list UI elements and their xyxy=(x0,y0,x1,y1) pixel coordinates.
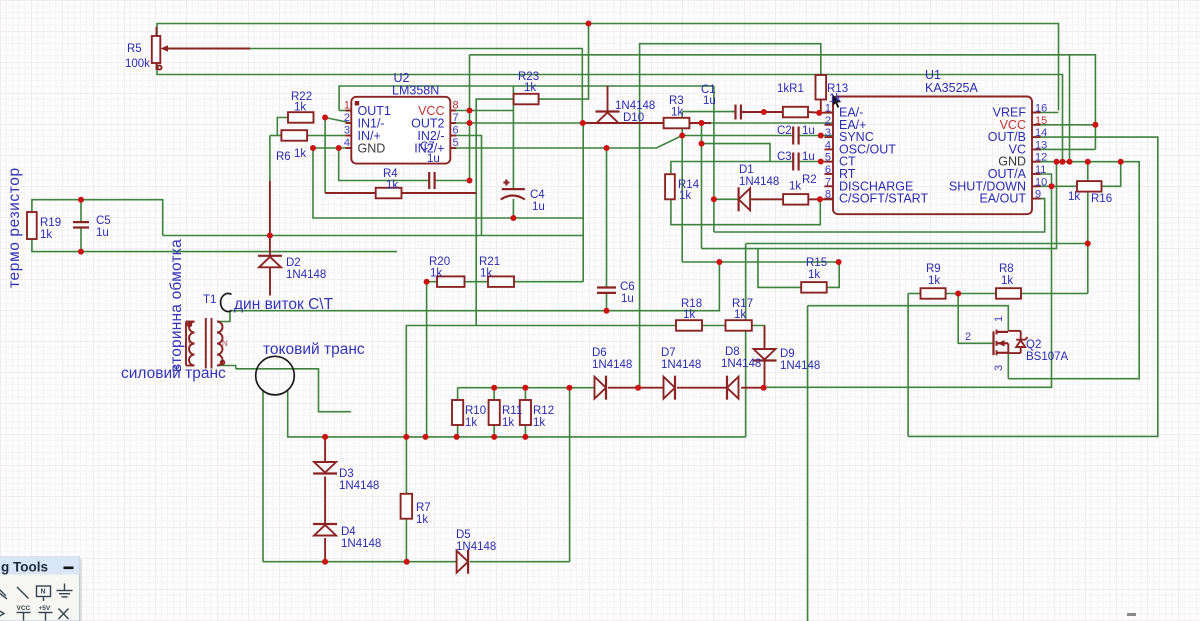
lead C1 right to R1 xyxy=(741,111,783,113)
junction GND c xyxy=(1067,159,1073,165)
svg-text:14: 14 xyxy=(1035,127,1047,139)
junction row387 R12 xyxy=(522,385,528,391)
svg-text:1k: 1k xyxy=(1001,275,1013,287)
wire net riser 745 bottomrail xyxy=(745,244,747,437)
svg-text:Q2: Q2 xyxy=(1026,339,1041,351)
lead D7-D8 xyxy=(677,387,727,389)
resistor R9 xyxy=(921,288,946,299)
current transformer ring node xyxy=(256,356,295,395)
svg-text:11: 11 xyxy=(1035,164,1046,176)
svg-text:3: 3 xyxy=(825,127,831,139)
junction SYNC diag xyxy=(679,133,685,139)
lead R13 bottom xyxy=(820,100,822,113)
svg-text:1k: 1k xyxy=(416,514,428,526)
diode D4 xyxy=(313,524,337,536)
junction C4 bottom xyxy=(510,215,516,221)
junction rail437 R10 xyxy=(454,434,460,440)
svg-text:KA3525A: KA3525A xyxy=(925,81,978,95)
svg-text:1u: 1u xyxy=(703,95,716,107)
wire net VCC pin15 xyxy=(1032,124,1095,126)
svg-text:1N4148: 1N4148 xyxy=(592,359,632,371)
svg-text:D3: D3 xyxy=(339,468,354,480)
wire net R15 left riser xyxy=(758,249,801,288)
wire net D1 row xyxy=(714,198,833,200)
lead D1-R2 xyxy=(751,198,783,200)
svg-text:дин виток C\T: дин виток C\T xyxy=(234,296,334,313)
lead D6 right xyxy=(608,387,638,389)
wire net rail 235 xyxy=(163,235,584,237)
svg-text:R9: R9 xyxy=(926,263,941,275)
toolbar icons xyxy=(0,584,73,621)
junction C6 top xyxy=(604,145,610,151)
svg-text:4: 4 xyxy=(825,139,831,151)
svg-text:LM358N: LM358N xyxy=(392,84,439,98)
svg-text:D10: D10 xyxy=(623,112,644,124)
wire net R22-pin2 diagonal xyxy=(325,118,351,124)
svg-text:EA/OUT: EA/OUT xyxy=(979,192,1026,206)
svg-text:1k: 1k xyxy=(533,417,545,429)
wire net R19 bottom rail xyxy=(32,239,397,252)
svg-text:1k: 1k xyxy=(808,269,820,281)
capacitor C7 xyxy=(429,172,434,189)
resistor R1 xyxy=(783,107,808,118)
lead D4 bottom xyxy=(324,538,326,562)
wire net C6 riser xyxy=(606,148,608,288)
svg-text:N: N xyxy=(41,589,46,596)
wire net R10 bottom lead xyxy=(457,425,459,437)
svg-text:1k: 1k xyxy=(829,93,841,105)
lead D9 top xyxy=(764,326,766,350)
wire net R11 top lead xyxy=(493,388,495,400)
wire net R3lower riser xyxy=(701,144,703,249)
wire net R19 top rail xyxy=(32,200,163,236)
lead D3 top xyxy=(324,437,326,462)
junction row387 D6D7 xyxy=(635,385,641,391)
lead D2 top xyxy=(269,181,271,256)
wire net VREF xyxy=(1032,112,1059,114)
svg-text:1N4148: 1N4148 xyxy=(456,541,496,553)
svg-text:1k: 1k xyxy=(480,268,492,280)
svg-text:1N4148: 1N4148 xyxy=(339,480,379,492)
junction D1 left xyxy=(711,196,717,202)
wire net R9R8 row xyxy=(908,293,1088,295)
wire net rail3-GND riser xyxy=(1069,55,1071,162)
svg-text:1u: 1u xyxy=(621,293,634,305)
wire net rail 248 OUTA xyxy=(702,162,1057,249)
wire net R15 right riser xyxy=(827,262,840,287)
svg-text:1k: 1k xyxy=(928,275,940,287)
U1 pin names right xyxy=(949,106,1027,206)
svg-text:1k: 1k xyxy=(679,190,691,202)
junction R5top-R23 xyxy=(586,21,592,27)
wire net R18 row xyxy=(406,326,764,437)
capacitor C4 polarized xyxy=(501,180,525,200)
resistor R19 xyxy=(27,212,37,239)
svg-text:R11: R11 xyxy=(502,405,522,417)
wire net circle left column xyxy=(262,391,264,562)
resistor R21 xyxy=(488,276,514,287)
diode D1 xyxy=(739,187,751,211)
junction VCC15 xyxy=(1092,122,1098,128)
capacitor C2 xyxy=(793,127,798,145)
U2 pin numbers xyxy=(344,100,350,150)
svg-text:6: 6 xyxy=(453,125,459,137)
svg-text:вторинна обмотка: вторинна обмотка xyxy=(168,239,185,372)
wire net drain column bottom xyxy=(807,306,809,621)
svg-text:2: 2 xyxy=(965,331,971,343)
wire net C4 top riser xyxy=(512,86,514,189)
svg-text:6: 6 xyxy=(825,164,831,176)
svg-text:R15: R15 xyxy=(806,257,827,269)
lead D3-D4 link xyxy=(324,477,326,525)
junction R3 lower xyxy=(699,141,705,147)
op-amp U2 LM358N box xyxy=(351,97,450,164)
capacitor C6 xyxy=(597,288,616,293)
svg-text:1N4148: 1N4148 xyxy=(286,269,326,281)
resistor R18 xyxy=(676,320,702,331)
diode D2 xyxy=(258,256,282,267)
svg-text:U1: U1 xyxy=(925,68,941,82)
resistor R23 xyxy=(514,94,539,105)
svg-text:R19: R19 xyxy=(40,217,61,229)
diode D5 xyxy=(457,550,469,574)
svg-text:1: 1 xyxy=(993,316,1005,322)
junction GND-C7 xyxy=(336,145,342,151)
svg-text:R8: R8 xyxy=(999,263,1014,275)
U1 pin numbers left 1-8 xyxy=(825,103,831,201)
wire net CT circle row xyxy=(236,369,351,412)
wire net T1 right top xyxy=(217,312,230,322)
diode D8 xyxy=(727,376,739,400)
resistor R4 xyxy=(376,188,402,199)
lead R3 right xyxy=(689,122,711,124)
svg-text:R20: R20 xyxy=(429,256,450,268)
svg-text:R5: R5 xyxy=(127,43,142,55)
svg-text:T1: T1 xyxy=(203,294,216,306)
wire net OUT2 row xyxy=(450,122,583,124)
wire net R5-top rail1 xyxy=(157,24,1059,111)
junction rail262 a xyxy=(716,259,722,265)
svg-text:R4: R4 xyxy=(383,168,398,180)
svg-text:1k: 1k xyxy=(294,102,306,114)
svg-text:1k: 1k xyxy=(1068,191,1080,203)
svg-text:D9: D9 xyxy=(780,348,795,360)
junction GND e xyxy=(1118,159,1124,165)
resistor R15 xyxy=(801,282,827,293)
svg-text:1k: 1k xyxy=(789,181,801,193)
svg-text:D7: D7 xyxy=(661,347,676,359)
wire net VCC rail3 xyxy=(470,55,1096,150)
svg-text:1N4148: 1N4148 xyxy=(739,176,779,188)
svg-text:1N4148: 1N4148 xyxy=(721,358,761,370)
junction R3 right xyxy=(699,120,705,126)
lead R1 right pin1 xyxy=(808,111,833,114)
wire net R10 top lead xyxy=(457,388,459,400)
wire net bottom rail 437 xyxy=(288,391,746,437)
wire net rail 243 R8 xyxy=(746,243,1088,245)
wire net R20 riser xyxy=(426,282,428,437)
junction row387 D5riser xyxy=(566,385,572,391)
potentiometer R5 xyxy=(152,36,174,70)
wire net C1 left lead xyxy=(682,111,735,113)
svg-text:1N4148: 1N4148 xyxy=(615,100,655,112)
mouse cursor pointer xyxy=(833,95,841,108)
svg-text:7: 7 xyxy=(453,112,459,124)
wire net rail 262 xyxy=(682,261,838,263)
wire net R12 top lead xyxy=(524,388,526,400)
lead D8 right xyxy=(741,387,764,389)
svg-text:7: 7 xyxy=(825,176,831,188)
wire net R3 right riser xyxy=(701,123,703,144)
lead OUT2-D10-R3 row xyxy=(583,122,601,124)
svg-text:1: 1 xyxy=(187,340,192,349)
diode D3 xyxy=(313,462,337,474)
svg-text:3: 3 xyxy=(993,365,1005,371)
U1 pin numbers right 16-9 xyxy=(1035,103,1047,201)
junction GND d xyxy=(1085,159,1091,165)
wire net IN2p row diagonal SYNC xyxy=(450,136,682,149)
svg-text:1u: 1u xyxy=(802,125,815,137)
svg-text:1kR1: 1kR1 xyxy=(777,83,804,95)
svg-text:8: 8 xyxy=(825,189,831,201)
wire net R12 bottom lead xyxy=(524,425,526,437)
wire net R23 left riser xyxy=(476,99,513,325)
svg-text:+5V: +5V xyxy=(39,605,51,612)
junction OUT2-D10 xyxy=(580,120,586,126)
wire net R14 top CT row xyxy=(671,144,833,175)
lead D10-R3 xyxy=(614,122,663,124)
junction R2 right xyxy=(817,196,823,202)
svg-text:C4: C4 xyxy=(530,189,545,201)
resistor R3 xyxy=(664,118,690,129)
lead R5 wiper shaft xyxy=(166,48,250,50)
wire net GND-C4 rail xyxy=(313,148,583,218)
wire net C4 bottom xyxy=(512,199,514,218)
wire net R22 left lead xyxy=(277,118,288,136)
svg-text:токовий транс: токовий транс xyxy=(263,341,365,358)
wire net bottom rail 562 xyxy=(263,561,570,563)
wire net R8 right riser xyxy=(1087,162,1089,294)
wire net U2 pin8-7 riser xyxy=(469,55,471,181)
resistor R22 xyxy=(288,112,314,123)
svg-text:1: 1 xyxy=(344,100,350,112)
wire net R14 bottom rail xyxy=(671,199,820,224)
junction R22 right xyxy=(322,115,328,121)
svg-text:R6: R6 xyxy=(276,151,291,163)
svg-text:1u: 1u xyxy=(802,151,815,163)
wire net Q2 source xyxy=(1007,353,1009,379)
junction R1 right xyxy=(816,110,822,116)
wire net GND row U2 xyxy=(313,147,351,149)
lead R4 right xyxy=(402,192,477,194)
wire net GND-C7 row xyxy=(339,148,470,181)
svg-text:5: 5 xyxy=(453,137,459,149)
svg-text:N: N xyxy=(222,339,228,348)
resistor R17 xyxy=(726,320,752,331)
lead D9 bottom xyxy=(764,362,766,388)
junction rail562 R7 xyxy=(404,559,410,565)
junction row387 R11 xyxy=(491,385,497,391)
wire net rail232 EAOUT xyxy=(714,199,1045,232)
svg-text:C/SOFT/START: C/SOFT/START xyxy=(839,192,928,206)
wire net OUTA riser xyxy=(764,174,1052,387)
wire net SYNC riser xyxy=(681,112,683,262)
wire net R5-wiper to OUT2 xyxy=(250,49,582,124)
wire net D5D6 riser xyxy=(569,388,571,562)
svg-text:1k: 1k xyxy=(683,309,695,321)
junction R19 bottom xyxy=(78,249,84,255)
svg-text:D1: D1 xyxy=(739,164,754,176)
diode D9 vertical xyxy=(753,349,777,361)
lead R2 right pin8 xyxy=(808,198,833,200)
lead R5 bottom xyxy=(156,62,158,70)
wire net OUT1 rail y86 xyxy=(339,86,714,111)
toolbar window Drawing Tools xyxy=(0,557,82,621)
resistor R16 xyxy=(1077,181,1102,192)
wire net R20R21 row xyxy=(427,281,584,283)
svg-text:C6: C6 xyxy=(620,281,635,293)
svg-text:C2: C2 xyxy=(777,125,792,137)
junction R9R8 xyxy=(955,291,961,297)
junction rail437 R11 xyxy=(491,434,497,440)
svg-text:D4: D4 xyxy=(341,526,356,538)
junction C3 right xyxy=(818,159,824,165)
junction rail437 R12 xyxy=(522,434,528,440)
svg-text:8: 8 xyxy=(453,100,459,112)
svg-text:C5: C5 xyxy=(96,215,111,227)
node label arc (дин виток C\T ellipse) xyxy=(221,294,232,312)
svg-text:1N4148: 1N4148 xyxy=(661,359,701,371)
lead D10 cathode riser xyxy=(607,86,609,112)
svg-text:1k: 1k xyxy=(524,82,536,94)
wire net Q2 drain rail xyxy=(808,306,1009,331)
junction R19 top xyxy=(78,197,84,203)
junction GND-C4 xyxy=(310,145,316,151)
svg-text:D8: D8 xyxy=(725,346,740,358)
wire net OUT1-pin1 stub xyxy=(339,110,351,112)
svg-text:D6: D6 xyxy=(592,347,607,359)
capacitor C5 xyxy=(73,222,89,227)
junction R8 riser xyxy=(1085,241,1091,247)
junction rail437 R20 xyxy=(423,434,429,440)
junction C6 bottom xyxy=(604,308,610,314)
wire net pin9 stub xyxy=(1032,198,1045,200)
junction rail562 D4 xyxy=(322,559,328,565)
wire net EAplus row xyxy=(702,122,834,124)
junction OUT2 pin7 xyxy=(467,120,473,126)
wire net VC pin13 xyxy=(1032,148,1095,150)
wire net OUTB xyxy=(908,137,1158,436)
U2 pin names xyxy=(358,104,391,156)
lead R5 top xyxy=(156,27,158,37)
wire net R6 row xyxy=(270,135,351,137)
capacitor C3 xyxy=(793,153,798,171)
svg-text:R16: R16 xyxy=(1091,193,1112,205)
svg-text:1k: 1k xyxy=(502,417,514,429)
svg-text:4: 4 xyxy=(344,137,350,149)
svg-text:15: 15 xyxy=(1035,115,1047,127)
resistor R7 xyxy=(401,494,413,519)
scrollbar dash bottom right xyxy=(1127,613,1136,616)
resistor R12 xyxy=(520,400,531,425)
svg-text:2: 2 xyxy=(344,112,350,124)
svg-text:1k: 1k xyxy=(671,107,683,119)
wire net D1 column xyxy=(713,86,715,232)
diode D6 xyxy=(595,376,607,400)
svg-text:D5: D5 xyxy=(456,529,471,541)
wire net R7 leads xyxy=(405,437,407,562)
wire net R22 feedback riser xyxy=(324,118,326,194)
resistor R10 xyxy=(452,400,463,425)
wire net GND row U1 xyxy=(1008,162,1139,379)
svg-text:g Tools: g Tools xyxy=(1,560,48,575)
U2 pin stubs left xyxy=(346,111,457,149)
wire net R11 bottom lead xyxy=(493,425,495,437)
wire net VCC row to C4 riser xyxy=(450,110,513,112)
svg-text:VCC: VCC xyxy=(17,605,31,612)
junction row387 D8D9 xyxy=(761,385,767,391)
junction C1 right xyxy=(761,109,767,115)
svg-text:1u: 1u xyxy=(532,201,545,213)
diode D7 xyxy=(664,376,676,400)
wire net rail2 to R13 xyxy=(640,44,821,388)
svg-text:1k: 1k xyxy=(294,148,306,160)
resistor R13 xyxy=(816,75,827,100)
svg-text:1u: 1u xyxy=(427,153,440,165)
U1 pin stubs xyxy=(825,113,1041,199)
svg-text:D2: D2 xyxy=(286,257,301,269)
junction C2 right xyxy=(818,133,824,139)
transformer T1 xyxy=(186,318,228,369)
lead R4 left xyxy=(325,192,376,194)
svg-text:2: 2 xyxy=(825,115,831,127)
junction GND a xyxy=(1054,159,1060,165)
junction GND b xyxy=(1060,159,1066,165)
resistor R2 xyxy=(783,194,808,205)
resistor R8 xyxy=(996,288,1021,299)
svg-text:C3: C3 xyxy=(777,151,792,163)
junction VCC pin8 xyxy=(467,108,473,114)
wire net C6 bottom xyxy=(606,293,608,311)
lead D7 left xyxy=(638,387,663,389)
svg-text:1k: 1k xyxy=(734,309,746,321)
svg-text:10: 10 xyxy=(1035,176,1047,188)
svg-text:1u: 1u xyxy=(96,227,109,239)
svg-text:R10: R10 xyxy=(465,405,486,417)
resistor R6 xyxy=(281,130,307,141)
svg-text:3: 3 xyxy=(344,125,350,137)
capacitor C1 xyxy=(736,105,741,120)
svg-text:1N4148: 1N4148 xyxy=(341,538,381,550)
svg-text:C7: C7 xyxy=(420,141,435,153)
svg-text:1N4148: 1N4148 xyxy=(780,360,820,372)
svg-text:BS107A: BS107A xyxy=(1026,351,1069,363)
svg-text:R21: R21 xyxy=(479,256,500,268)
wire net OUTA bottom riser xyxy=(907,294,909,437)
svg-text:1k: 1k xyxy=(386,180,398,192)
diode D10 xyxy=(596,112,620,124)
svg-text:R2: R2 xyxy=(802,174,817,186)
svg-text:5: 5 xyxy=(825,152,831,164)
wire net din vitok rail xyxy=(230,262,719,311)
svg-text:1k: 1k xyxy=(430,268,442,280)
svg-text:9: 9 xyxy=(1035,189,1041,201)
wire net R6-D2 riser xyxy=(269,136,271,182)
junction C7 right xyxy=(467,178,473,184)
wire net IN2- riser xyxy=(450,136,481,236)
svg-text:1k: 1k xyxy=(40,229,52,241)
junction rail437 D3 xyxy=(322,434,328,440)
